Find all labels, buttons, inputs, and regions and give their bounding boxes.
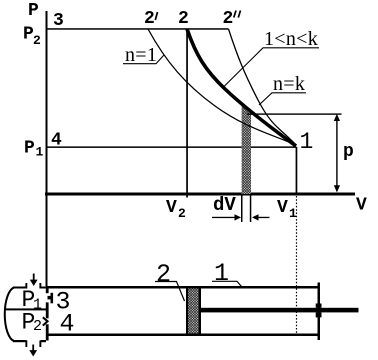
- dV strip right guide below axis: [250, 196, 252, 223]
- P axis: [46, 11, 48, 195]
- head bottom edge left segment: [13, 340, 27, 342]
- P1 chamber label: [22, 287, 43, 314]
- intake port stub right: [39, 283, 41, 289]
- rod gland tick lower: [316, 312, 322, 317]
- head bottom edge right segment: [41, 340, 47, 342]
- polytrope thick curve 1&lt;n&lt;k: [187, 29, 296, 146]
- svg-text:V: V: [277, 198, 288, 218]
- piston: [186, 289, 201, 334]
- cylinder right end cap: [318, 283, 321, 341]
- intake port stub left: [25, 283, 27, 289]
- node 2'': [223, 9, 241, 29]
- svg-text:2: 2: [33, 33, 41, 48]
- svg-text:1<n<k: 1<n<k: [264, 28, 318, 50]
- P1 line: [47, 146, 297, 148]
- svg-text:2: 2: [144, 9, 155, 29]
- V2 line: [186, 29, 188, 198]
- svg-text:P: P: [24, 139, 35, 159]
- svg-text:2: 2: [156, 260, 171, 289]
- svg-text:1: 1: [289, 206, 297, 221]
- svg-text:V: V: [356, 196, 367, 216]
- exhaust arrow: [29, 345, 37, 357]
- suction valve 3 plate: [51, 293, 54, 304]
- label 1&lt;n&lt;k: [223, 28, 319, 88]
- P2 chamber label: [22, 310, 43, 336]
- svg-text:2: 2: [33, 318, 42, 335]
- svg-text:3: 3: [53, 11, 64, 31]
- adiabat curve n=k: [229, 29, 297, 145]
- cylinder top wall: [46, 286, 320, 289]
- isotherm curve n=1: [148, 29, 296, 145]
- svg-text:4: 4: [51, 131, 62, 151]
- piston rod: [201, 308, 359, 313]
- dV strip left guide below axis: [241, 196, 243, 223]
- cylinder left wall segment lower: [46, 324, 49, 340]
- cylinder bottom wall: [46, 334, 320, 337]
- label 1 (cylinder): [212, 259, 242, 288]
- exhaust port stub right: [39, 341, 41, 348]
- head top edge left segment: [13, 287, 27, 289]
- head top edge right segment: [41, 287, 47, 289]
- dV right-pointing arrow: [212, 214, 241, 220]
- label n=k: [259, 73, 306, 105]
- label 2 (piston): [155, 260, 185, 301]
- svg-text:P: P: [28, 1, 39, 21]
- svg-text:1: 1: [300, 129, 314, 155]
- V axis: [45, 193, 355, 196]
- p dimension line with arrows: [334, 114, 340, 193]
- svg-text:n=1: n=1: [125, 44, 157, 66]
- svg-text:dV: dV: [213, 194, 236, 216]
- suction valve 3 stem: [48, 296, 51, 300]
- V1 dotted alignment line: [296, 196, 298, 335]
- svg-text:p: p: [343, 142, 354, 162]
- svg-text:1: 1: [214, 259, 229, 288]
- svg-text:4: 4: [60, 310, 75, 339]
- label n=1: [123, 44, 164, 66]
- cylinder left wall segment upper: [46, 286, 49, 293]
- head chamber divider: [4, 308, 46, 310]
- p ordinate top line: [247, 113, 342, 114]
- discharge valve 4 flap: [43, 317, 48, 325]
- svg-text:2: 2: [223, 9, 234, 29]
- node 2': [144, 9, 158, 29]
- head left arc: [5, 288, 14, 342]
- exhaust port stub left: [25, 341, 27, 348]
- svg-text:2: 2: [178, 9, 189, 29]
- V1 line: [296, 147, 298, 196]
- svg-text:n=k: n=k: [273, 73, 305, 95]
- dV strip hatched: [242, 105, 251, 195]
- svg-text:2: 2: [178, 206, 186, 221]
- axis-to-cylinder alignment line: [46, 195, 48, 286]
- svg-text:V: V: [166, 198, 177, 218]
- dV left-pointing arrow: [252, 214, 270, 220]
- rod gland tick upper: [316, 304, 322, 308]
- P2 line: [47, 28, 229, 30]
- cylinder left wall segment middle: [46, 302, 49, 318]
- intake arrow: [30, 274, 38, 287]
- svg-text:1: 1: [36, 145, 44, 160]
